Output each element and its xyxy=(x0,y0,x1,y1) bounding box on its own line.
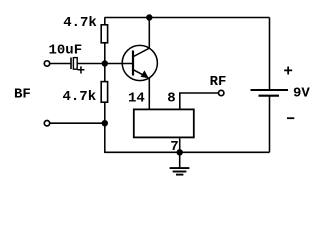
wire right rail lower xyxy=(269,96,271,152)
svg-text:14: 14 xyxy=(128,90,145,106)
resistor R1 xyxy=(101,25,107,43)
wire pin 7 xyxy=(179,138,181,152)
svg-text:+: + xyxy=(77,64,85,80)
terminal RF xyxy=(219,90,224,95)
op-amp U1 body xyxy=(134,109,194,137)
wire pin 8 to RF xyxy=(180,93,219,109)
resistor R2 xyxy=(101,82,107,103)
svg-text:+: + xyxy=(283,63,293,81)
wire bottom rail xyxy=(104,151,269,153)
svg-text:4.7k: 4.7k xyxy=(63,15,97,31)
node base junction xyxy=(102,60,108,66)
battery - xyxy=(287,117,294,119)
capacitor C1 xyxy=(71,58,77,70)
wire right rail upper xyxy=(269,18,271,90)
node ground junction xyxy=(177,149,183,155)
svg-text:7: 7 xyxy=(170,139,178,155)
svg-text:10uF: 10uF xyxy=(49,43,83,59)
svg-text:RF: RF xyxy=(210,74,227,90)
terminal BF upper xyxy=(44,61,49,66)
wire capacitor to base node xyxy=(50,63,71,65)
wire emitter to pin 14 xyxy=(148,78,150,109)
svg-text:9V: 9V xyxy=(293,85,310,101)
svg-text:8: 8 xyxy=(167,90,175,106)
battery B1 xyxy=(251,90,289,96)
node collector junction xyxy=(146,14,152,20)
wire left rail xyxy=(104,18,106,153)
node input junction xyxy=(102,120,108,126)
wire top rail xyxy=(105,17,270,19)
ground xyxy=(170,152,190,174)
wire input lower xyxy=(50,122,105,124)
wire base xyxy=(77,63,133,65)
wire collector xyxy=(148,18,150,49)
terminal BF lower xyxy=(44,121,49,126)
svg-text:BF: BF xyxy=(14,87,31,103)
transistor Q1 xyxy=(122,45,157,80)
svg-text:4.7k: 4.7k xyxy=(63,89,97,105)
